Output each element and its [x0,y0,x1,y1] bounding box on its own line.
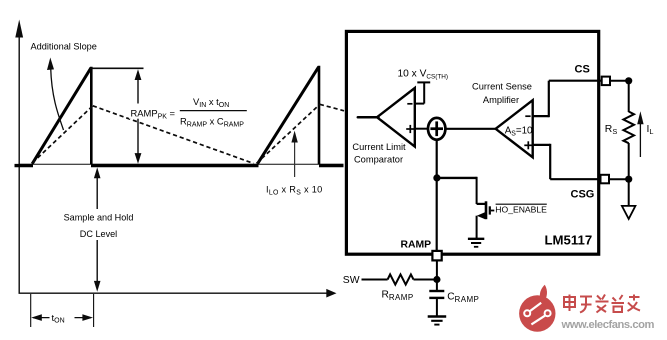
svg-text:CRAMP: CRAMP [447,292,479,304]
svg-text:HO_ENABLE: HO_ENABLE [495,204,547,214]
summing node [428,118,445,140]
fraction bar [180,110,247,112]
t_ON boundary line right [93,294,95,327]
solid ramp 2 [258,67,319,164]
watermark chinese glyphs [564,295,640,313]
I_LO arrow [291,131,297,177]
wire node to resistor RRAMP [414,279,437,281]
node CSG dot [625,176,632,183]
svg-text:ILO x RS x 10: ILO x RS x 10 [266,185,323,197]
pin RAMP [432,251,441,261]
waveform flat segment 2 [91,164,259,167]
wire amp plus to CSG [533,144,601,179]
10 x V_CS(TH) reference connector [415,82,430,103]
svg-text:Amplifier: Amplifier [483,95,519,105]
LM5117 block outline [346,31,598,254]
ramp 1 falling edge [90,67,93,165]
svg-text:Comparator: Comparator [354,154,403,164]
wire summing node to amplifier [445,128,497,130]
equation RAMP_PK [129,104,178,119]
waveform flat segment 3 [319,164,344,167]
horizontal axis [19,289,337,298]
transistor Q1 hold switch [477,201,495,238]
svg-text:Current Limit: Current Limit [352,142,406,152]
waveform flat segment 1 [15,164,34,167]
peak reference line [90,67,144,69]
svg-text:CSG: CSG [571,189,595,201]
wire RAMP pin to external node [436,260,438,280]
svg-text:SW: SW [343,275,360,286]
label HO_ENABLE [495,204,547,214]
svg-text:DC Level: DC Level [80,229,117,239]
svg-text:RRAMP x CRAMP: RRAMP x CRAMP [180,115,244,128]
svg-text:RAMPPK =: RAMPPK = [131,108,176,121]
current IL arrow [637,111,643,157]
svg-text:IL: IL [647,124,654,136]
svg-text:RAMP: RAMP [401,239,432,250]
ramp 2 falling edge [318,66,321,165]
zero DC level line [19,163,344,165]
t_ON double arrow [31,309,93,326]
node junction dot [433,174,440,181]
additional slope pointer arrow [47,58,64,131]
svg-text:10 x VCS(TH): 10 x VCS(TH) [398,68,449,80]
svg-text:RRAMP: RRAMP [382,290,414,302]
node CS dot [625,77,632,84]
svg-text:LM5117: LM5117 [545,233,593,248]
dashed sampled ramp rise 1 [33,106,93,163]
ground CSG analog [622,183,636,219]
wire CS to sense node [610,80,629,82]
vertical axis [15,20,23,294]
svg-text:Additional Slope: Additional Slope [31,42,97,52]
label Sample and Hold DC Level [62,209,135,240]
wire junction to mosfet [437,177,477,204]
pin CSG [601,175,610,184]
svg-text:Sample and Hold: Sample and Hold [64,212,134,222]
op-amp U2 current sense amplifier [496,100,533,157]
svg-text:Current Sense: Current Sense [472,81,532,91]
ground mosfet [468,239,484,247]
svg-text:AS=10: AS=10 [505,126,533,138]
RAMP_PK measurement double arrow [135,69,142,164]
watermark logo disc [519,279,555,331]
svg-text:VIN x tON: VIN x tON [193,96,229,109]
sample and hold double arrow [94,167,101,291]
node RAMP external dot [433,276,440,283]
dashed sampled ramp rise 2 [257,104,320,163]
t_ON boundary line left [30,294,32,327]
svg-text:CS: CS [575,63,590,75]
pin CS [602,77,610,86]
svg-text:www.elecfans.com: www.elecfans.com [561,319,655,331]
solid ramp 1 [32,68,91,164]
wire CSG to sense node [609,178,629,180]
resistor RRAMP [388,274,414,284]
capacitor CRAMP [429,280,444,317]
resistor RS [623,81,634,176]
wire resistor to SW [362,279,388,281]
ground CRAMP [428,317,447,325]
dashed decay 1 [93,106,254,164]
svg-text:RS: RS [605,124,618,136]
op-amp U1 current limit comparator [358,88,415,147]
dashed decay 2 [320,104,344,111]
wire amp minus to CS [533,81,602,118]
wire comparator plus input [415,128,429,130]
wire summing node down to RAMP [436,140,438,252]
